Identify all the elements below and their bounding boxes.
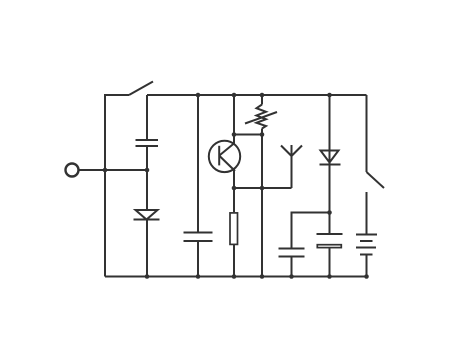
node bottom bus C4 bbox=[327, 274, 332, 279]
wire C3 top link bbox=[292, 213, 330, 249]
node base link right bbox=[260, 132, 265, 137]
wire C1 branch upper bbox=[146, 95, 148, 140]
wire C2 branch upper bbox=[197, 95, 199, 233]
capacitor C4 polarized bbox=[317, 234, 343, 248]
wire top bus bbox=[147, 94, 367, 96]
node top bus C2 bbox=[196, 93, 201, 98]
transistor Q1 bbox=[209, 141, 240, 172]
resistor R1 bbox=[230, 213, 238, 245]
wire D2 branch bbox=[329, 95, 331, 213]
wire C2 to bottom bus bbox=[197, 241, 199, 277]
node bottom bus battery bbox=[364, 274, 369, 279]
node bottom bus R2 bbox=[260, 274, 265, 279]
node bottom bus D1 bbox=[145, 274, 150, 279]
wire bottom bus bbox=[105, 276, 367, 278]
switch S1 bbox=[129, 82, 153, 96]
node bottom bus R1 bbox=[232, 274, 237, 279]
wire battery to bottom bus bbox=[366, 255, 368, 277]
wire terminal to node B bbox=[79, 169, 147, 171]
wire R1 to bottom bus bbox=[233, 245, 235, 277]
wire R2 branch upper bbox=[261, 95, 263, 105]
potentiometer R2 bbox=[245, 105, 277, 129]
diode D2 bbox=[320, 151, 341, 165]
node base link left bbox=[232, 132, 237, 137]
switch S2 bbox=[367, 172, 385, 188]
wire C4 to bottom bus bbox=[329, 248, 331, 276]
node D2-C3-C4 junction bbox=[327, 210, 332, 215]
node emitter junction bbox=[232, 186, 237, 191]
node top bus R2 bbox=[260, 93, 265, 98]
wire emitter node to antenna bbox=[234, 187, 292, 189]
battery BT1 bbox=[356, 235, 377, 255]
wire node to C4 bbox=[329, 213, 331, 235]
node terminal-C1 junction bbox=[145, 168, 150, 173]
capacitor C1 bbox=[136, 140, 159, 146]
wire C1 to D1 bbox=[146, 146, 148, 210]
wire left vertical bbox=[105, 95, 129, 277]
terminal T1 bbox=[66, 164, 79, 177]
wire S2 to battery bbox=[366, 192, 368, 235]
diode D1 bbox=[134, 210, 160, 220]
node terminal-left junction bbox=[103, 168, 108, 173]
node top bus D2 bbox=[327, 93, 332, 98]
wire collector branch bbox=[233, 95, 235, 144]
wire emitter down bbox=[233, 171, 235, 213]
wire C3 to bottom bus bbox=[291, 257, 293, 277]
wire D1 to bottom bus bbox=[146, 220, 148, 277]
node top bus collector bbox=[232, 93, 237, 98]
node bottom bus C3 bbox=[289, 274, 294, 279]
capacitor C3 bbox=[279, 249, 305, 257]
antenna ANT1 bbox=[281, 145, 302, 188]
wire right branch upper bbox=[366, 95, 368, 172]
wire base link horizontal bbox=[234, 134, 262, 136]
node antenna wire R2 cross bbox=[260, 186, 265, 191]
capacitor C2 bbox=[184, 233, 213, 242]
wire R2 to bottom bus bbox=[261, 129, 263, 277]
node bottom bus C2 bbox=[196, 274, 201, 279]
